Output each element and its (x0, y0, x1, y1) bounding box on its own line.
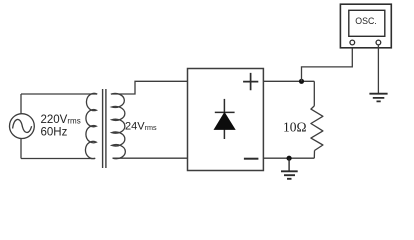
wire: scope terminal B to ground (377, 45, 379, 94)
diode D1 triangle (214, 113, 234, 130)
transformer core line 1 (102, 89, 104, 168)
svg-text:24Vrms: 24Vrms (125, 121, 157, 133)
resistor R1 zigzag (311, 106, 323, 151)
resistor R1 bottom lead (313, 151, 315, 159)
wire: source loop top (source to primary) (21, 93, 97, 95)
wire: bridge - output rail (263, 157, 314, 159)
wire: source loop bottom (21, 158, 95, 160)
oscilloscope screen box (349, 10, 385, 36)
transformer core line 2 (105, 89, 107, 168)
diode D1 vertical lead (223, 99, 225, 139)
ground symbol (load side) (281, 171, 298, 179)
wire: source loop left edge (20, 94, 22, 159)
plus sign (243, 73, 258, 90)
svg-text:60Hz: 60Hz (41, 126, 68, 138)
oscilloscope outer box (340, 4, 391, 48)
wire: scope probe branch (302, 45, 353, 81)
transformer T1 primary winding (4 loops) (85, 93, 97, 158)
node junction dot (top rail to scope) (299, 79, 304, 84)
bridge rectifier box (188, 69, 264, 171)
AC source V1 circle (10, 114, 35, 139)
svg-text:10Ω: 10Ω (283, 119, 307, 134)
svg-text:OSC.: OSC. (355, 16, 377, 26)
scope terminal A (350, 40, 355, 45)
AC source sine wave (13, 119, 32, 132)
resistor R1 top lead (313, 81, 315, 106)
node junction dot (bottom rail to ground) (287, 156, 292, 161)
scope terminal B (376, 40, 381, 45)
ground symbol (scope side) (369, 94, 387, 102)
svg-text:220Vrms: 220Vrms (41, 114, 81, 126)
ground lead (load side) (288, 158, 290, 171)
wire: secondary bottom to bridge (113, 157, 188, 159)
wire: secondary top to bridge (with jog) (112, 81, 188, 94)
transformer T1 secondary winding (5 loops) (111, 93, 126, 158)
diode D1 cathode bar (215, 111, 235, 113)
wire: bridge + output rail (263, 80, 314, 82)
minus sign (244, 158, 259, 160)
